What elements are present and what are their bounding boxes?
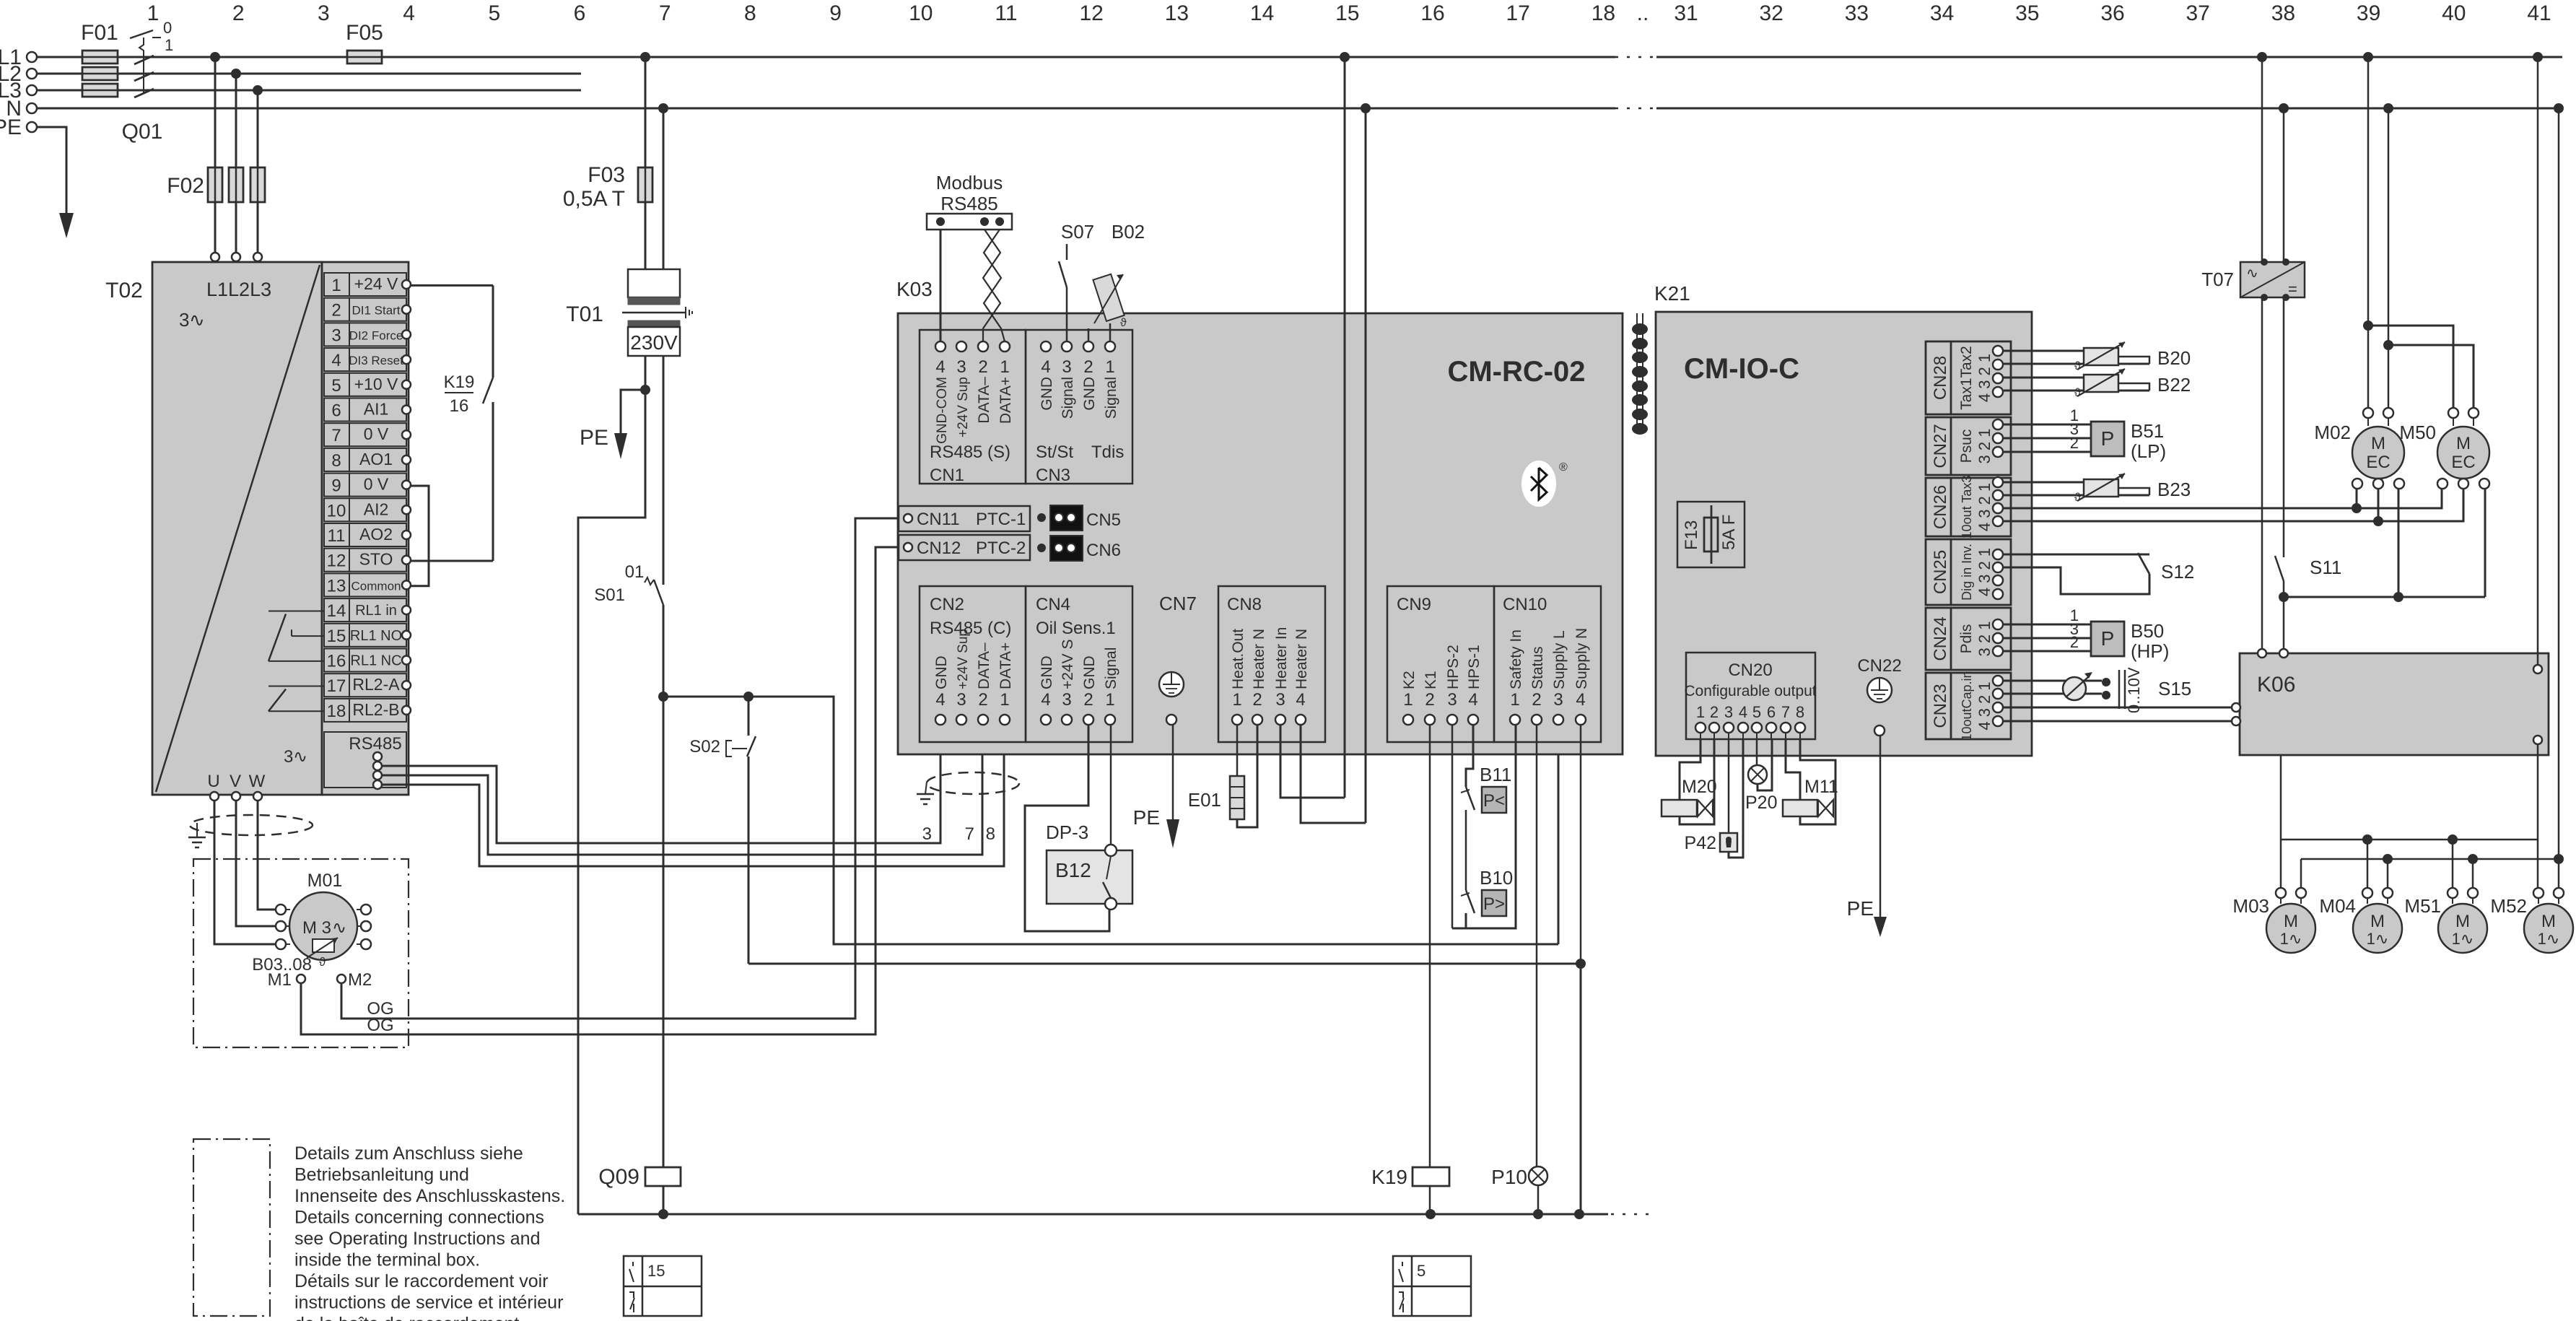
svg-text:(LP): (LP) [2131,440,2166,462]
svg-text:K03: K03 [896,278,933,300]
svg-text:+24 V: +24 V [354,274,398,293]
svg-text:1: 1 [1105,357,1114,377]
svg-text:DATA+: DATA+ [997,642,1014,689]
svg-text:Betriebsanleitung und: Betriebsanleitung und [294,1165,469,1185]
svg-text:DATA–: DATA– [976,642,992,689]
svg-text:F02: F02 [167,174,204,198]
svg-text:Heater N: Heater N [1251,629,1267,689]
svg-text:CN24: CN24 [1931,616,1950,660]
svg-text:F01: F01 [81,21,118,45]
svg-text:3 2 1: 3 2 1 [1975,429,1994,464]
svg-text:S01: S01 [594,585,625,605]
svg-text:S15: S15 [2158,678,2191,699]
svg-text:3: 3 [1062,690,1071,710]
svg-text:3: 3 [1447,690,1457,710]
svg-text:1∿: 1∿ [2538,930,2560,948]
svg-text:4 3 2 1: 4 3 2 1 [1975,548,1994,596]
svg-text:+24V Sup: +24V Sup [956,629,971,689]
svg-text:F03: F03 [588,163,625,187]
svg-text:8: 8 [986,824,995,844]
svg-text:DI1 Start: DI1 Start [352,304,400,318]
svg-text:P: P [2101,627,2115,650]
svg-text:CN11: CN11 [917,510,960,529]
svg-text:PE: PE [0,115,22,139]
svg-text:M20: M20 [1682,777,1717,797]
svg-text:38: 38 [2271,1,2295,25]
svg-text:2: 2 [1083,690,1093,710]
svg-text:Oil Sens.1: Oil Sens.1 [1036,619,1116,638]
svg-text:RL2-A: RL2-A [352,675,400,694]
svg-text:CN5: CN5 [1086,510,1121,530]
svg-text:2: 2 [232,1,245,25]
svg-text:K06: K06 [2257,673,2295,697]
svg-text:∿: ∿ [293,747,307,767]
svg-text:2: 2 [1532,690,1541,710]
svg-text:7: 7 [659,1,671,25]
svg-text:CN2: CN2 [930,595,964,614]
svg-text:5: 5 [1417,1262,1425,1280]
svg-text:4: 4 [935,690,945,710]
svg-text:1: 1 [331,276,341,295]
svg-text:CM-RC-02: CM-RC-02 [1447,356,1585,388]
svg-text:14: 14 [1250,1,1274,25]
svg-text:14: 14 [327,601,346,621]
svg-text:DI2 Force: DI2 Force [349,328,403,342]
svg-text:CN9: CN9 [1397,595,1431,614]
svg-text:Safety In: Safety In [1508,629,1524,689]
svg-text:5: 5 [488,1,500,25]
svg-text:M: M [2456,434,2471,453]
svg-text:2: 2 [2070,633,2079,651]
svg-text:5A F: 5A F [1719,515,1739,550]
svg-text:CN27: CN27 [1931,424,1950,468]
svg-text:M2: M2 [348,970,372,990]
svg-text:7: 7 [965,824,974,844]
svg-text:M: M [2370,912,2385,931]
svg-text:Signal: Signal [1103,377,1119,419]
svg-text:5: 5 [1752,703,1761,721]
svg-text:S11: S11 [2310,557,2341,578]
svg-text:2: 2 [1083,357,1093,377]
svg-text:3: 3 [331,326,341,345]
svg-text:GND-COM: GND-COM [935,377,950,444]
svg-text:Innenseite des Anschlusskasten: Innenseite des Anschlusskastens. [294,1186,565,1206]
svg-text:1: 1 [147,1,160,25]
svg-text:M: M [2455,912,2470,931]
svg-text:∿: ∿ [189,309,205,331]
svg-text:4: 4 [1041,357,1050,377]
svg-text:18: 18 [327,702,346,721]
svg-text:6: 6 [331,401,341,421]
svg-text:B10: B10 [1480,867,1513,889]
svg-text:4: 4 [403,1,415,25]
svg-text:39: 39 [2357,1,2380,25]
svg-text:T01: T01 [566,302,603,326]
svg-text:M51: M51 [2404,895,2441,917]
svg-text:13: 13 [327,576,346,596]
svg-text:1∿: 1∿ [2367,930,2389,948]
svg-text:CN10: CN10 [1503,595,1547,614]
svg-text:P<: P< [1483,791,1505,811]
svg-text:12: 12 [1080,1,1104,25]
svg-text:1: 1 [1000,357,1009,377]
svg-text:16: 16 [450,396,469,416]
svg-text:(HP): (HP) [2131,640,2169,662]
svg-text:Status: Status [1529,646,1546,689]
svg-text:1: 1 [1105,690,1114,710]
svg-text:4 3 2 1: 4 3 2 1 [1975,681,1994,730]
svg-text:4: 4 [1576,690,1585,710]
svg-text:M1: M1 [268,970,292,990]
svg-text:3: 3 [318,1,330,25]
svg-text:K19: K19 [1371,1166,1407,1188]
svg-text:GND: GND [933,655,950,689]
svg-text:RS485: RS485 [940,193,998,214]
svg-text:GND: GND [1081,655,1098,689]
svg-text:1∿: 1∿ [2452,930,2474,948]
svg-text:CN6: CN6 [1086,541,1121,560]
svg-text:®: ® [1559,461,1568,474]
svg-text:11: 11 [328,526,346,546]
svg-text:AO2: AO2 [359,525,393,544]
svg-text:M03: M03 [2232,895,2269,917]
svg-text:CN20: CN20 [1728,660,1772,680]
svg-text:Signal: Signal [1103,648,1119,689]
svg-text:11: 11 [995,1,1017,25]
svg-text:35: 35 [2015,1,2039,25]
svg-text:36: 36 [2100,1,2124,25]
svg-text:2: 2 [1710,703,1719,721]
svg-text:Supply L: Supply L [1551,630,1568,689]
svg-text:PTC-1: PTC-1 [976,510,1026,529]
svg-text:ϑ: ϑ [2074,492,2081,504]
svg-text:DP-3: DP-3 [1046,821,1088,843]
svg-text:B02: B02 [1112,221,1145,243]
svg-text:instructions de service et int: instructions de service et intérieur [294,1293,563,1313]
svg-text:4: 4 [935,357,945,377]
svg-text:16: 16 [327,652,346,671]
svg-text:CN1: CN1 [930,466,964,485]
svg-text:..: .. [1637,1,1649,25]
svg-text:12: 12 [327,551,346,571]
svg-text:Dig in Inv.: Dig in Inv. [1960,544,1974,601]
svg-text:GND: GND [1081,377,1098,411]
svg-text:+24V S: +24V S [1060,640,1076,689]
svg-text:CN26: CN26 [1931,485,1950,529]
svg-text:B51: B51 [2131,420,2164,442]
svg-text:PTC-2: PTC-2 [976,539,1026,558]
svg-text:32: 32 [1760,1,1783,25]
svg-text:Heater N: Heater N [1293,629,1310,689]
svg-text:3: 3 [922,824,932,844]
svg-text:RS485: RS485 [349,734,401,754]
svg-text:K2: K2 [1401,671,1418,689]
svg-text:T02: T02 [105,279,143,302]
svg-text:M: M [2284,912,2298,931]
svg-text:Psuc: Psuc [1958,430,1975,463]
svg-text:8: 8 [1796,703,1804,721]
svg-text:3: 3 [1724,703,1733,721]
svg-text:DATA–: DATA– [976,377,992,424]
svg-text:B11: B11 [1480,764,1511,785]
svg-text:L1L2L3: L1L2L3 [206,279,271,300]
svg-text:PE: PE [580,426,608,450]
svg-text:OG: OG [367,1016,393,1035]
svg-text:2: 2 [978,357,987,377]
svg-text:4: 4 [1296,690,1305,710]
svg-text:ϑ: ϑ [319,955,326,969]
svg-text:Détails sur le raccordement vo: Détails sur le raccordement voir [294,1271,549,1291]
svg-text:2: 2 [1252,690,1262,710]
svg-text:K1: K1 [1423,671,1439,689]
svg-text:3: 3 [956,690,966,710]
svg-text:15: 15 [1335,1,1359,25]
svg-text:PE: PE [1133,806,1160,829]
svg-text:1: 1 [1000,690,1009,710]
svg-text:31: 31 [1674,1,1698,25]
svg-text:AI2: AI2 [364,500,389,518]
svg-text:CN23: CN23 [1931,684,1950,728]
svg-text:0 V: 0 V [364,475,389,494]
svg-text:3: 3 [1062,357,1071,377]
svg-text:STO: STO [359,550,393,569]
svg-text:P>: P> [1483,894,1505,914]
svg-text:M52: M52 [2490,895,2527,917]
svg-text:S02: S02 [689,737,720,757]
svg-text:inside the terminal box.: inside the terminal box. [294,1250,480,1270]
svg-text:Pdis: Pdis [1958,624,1975,654]
svg-text:4 3 2 1: 4 3 2 1 [1975,483,1994,531]
svg-text:33: 33 [1845,1,1869,25]
svg-text:7: 7 [1781,703,1790,721]
svg-text:Supply N: Supply N [1573,628,1590,689]
svg-text:M04: M04 [2319,895,2356,917]
svg-text:3: 3 [1275,690,1285,710]
svg-text:S12: S12 [2161,561,2194,583]
svg-text:Tdis: Tdis [1091,442,1124,462]
svg-text:9: 9 [331,476,341,496]
svg-text:DATA+: DATA+ [997,377,1014,424]
svg-text:∿: ∿ [332,918,346,938]
svg-text:3: 3 [284,747,293,767]
svg-text:4: 4 [1468,690,1477,710]
svg-text:6: 6 [574,1,586,25]
svg-text:Modbus: Modbus [936,172,1003,193]
svg-text:Details zum Anschluss siehe: Details zum Anschluss siehe [294,1143,523,1164]
svg-text:F05: F05 [346,21,383,45]
svg-text:HPS-1: HPS-1 [1466,645,1483,689]
svg-text:CN28: CN28 [1931,356,1950,400]
svg-text:4: 4 [1041,690,1050,710]
svg-text:K21: K21 [1654,282,1690,305]
svg-text:P42: P42 [1685,833,1716,853]
svg-text:0,5A T: 0,5A T [563,187,625,211]
svg-text:1∿: 1∿ [2280,930,2302,948]
svg-text:P: P [2101,427,2115,450]
svg-text:B23: B23 [2157,479,2191,500]
svg-text:de la boîte de raccordement.: de la boîte de raccordement. [294,1314,524,1321]
svg-text:see Operating Instructions and: see Operating Instructions and [294,1229,540,1249]
svg-text:T07: T07 [2201,269,2234,290]
svg-text:PE: PE [1847,897,1874,920]
svg-text:4: 4 [331,351,341,370]
svg-text:10: 10 [327,501,346,520]
svg-text:AI1: AI1 [364,400,389,419]
svg-text:B20: B20 [2157,347,2191,369]
svg-text:RL1 in: RL1 in [355,603,397,619]
svg-text:M11: M11 [1804,777,1838,797]
svg-text:B50: B50 [2131,620,2164,642]
svg-text:10: 10 [909,1,933,25]
svg-text:15: 15 [327,627,346,646]
svg-text:E01: E01 [1188,789,1221,811]
svg-text:M: M [2371,434,2385,453]
svg-text:10outCap.in: 10outCap.in [1960,671,1974,741]
svg-text:M02: M02 [2314,422,2351,443]
svg-text:RS485 (S): RS485 (S) [930,442,1010,462]
svg-text:CN25: CN25 [1931,550,1950,594]
svg-text:2: 2 [331,301,341,321]
svg-text:ϑ: ϑ [1120,317,1127,329]
svg-text:230V: 230V [630,331,678,354]
svg-text:U: U [207,772,219,791]
svg-text:ϑ: ϑ [2074,360,2081,372]
svg-text:CM-IO-C: CM-IO-C [1684,353,1799,385]
svg-text:CN4: CN4 [1036,595,1070,614]
svg-text:RL1 NC: RL1 NC [350,653,401,669]
svg-text:RL2-B: RL2-B [352,700,399,719]
svg-text:0..10V: 0..10V [2125,667,2143,713]
svg-text:Details concerning connections: Details concerning connections [294,1208,544,1228]
svg-text:40: 40 [2442,1,2466,25]
svg-text:4: 4 [1739,703,1747,721]
svg-text:8: 8 [744,1,756,25]
svg-text:+10 V: +10 V [354,375,398,393]
svg-text:9: 9 [829,1,842,25]
svg-text:10out Tax3: 10out Tax3 [1960,476,1974,539]
svg-text:1: 1 [1696,703,1705,721]
svg-text:AO1: AO1 [359,450,393,468]
svg-text:CN8: CN8 [1227,595,1262,614]
svg-text:Common: Common [352,579,401,593]
svg-text:M50: M50 [2399,422,2436,443]
svg-text:8: 8 [331,451,341,471]
svg-text:16: 16 [1420,1,1444,25]
svg-text:15: 15 [647,1262,665,1280]
svg-text:17: 17 [327,676,346,696]
svg-text:M: M [2541,912,2556,931]
svg-text:6: 6 [1767,703,1776,721]
svg-text:Heat.Out: Heat.Out [1230,629,1246,689]
svg-text:3: 3 [179,309,189,331]
svg-text:41: 41 [2527,1,2551,25]
svg-text:1: 1 [165,36,173,54]
svg-text:01: 01 [625,562,645,582]
svg-text:7: 7 [331,426,341,445]
svg-text:0: 0 [163,19,172,37]
svg-text:CN22: CN22 [1857,656,1901,676]
svg-text:M01: M01 [307,871,343,891]
svg-text:CN3: CN3 [1036,466,1070,485]
svg-text:17: 17 [1506,1,1530,25]
svg-text:B22: B22 [2157,374,2191,396]
svg-text:13: 13 [1165,1,1189,25]
svg-text:=: = [2288,280,2297,298]
svg-text:DI3 Reset: DI3 Reset [349,354,403,367]
svg-text:1: 1 [1510,690,1519,710]
svg-text:GND: GND [1039,377,1055,411]
svg-text:CN7: CN7 [1159,593,1197,614]
svg-text:K19: K19 [444,372,475,392]
svg-text:2: 2 [1425,690,1434,710]
svg-text:1: 1 [1403,690,1413,710]
svg-text:W: W [249,772,266,791]
svg-text:3 2 1: 3 2 1 [1975,622,1994,657]
svg-text:Tax1Tax2: Tax1Tax2 [1958,346,1975,410]
svg-text:S07: S07 [1061,221,1094,243]
svg-text:EC: EC [2451,453,2475,472]
svg-text:EC: EC [2366,453,2390,472]
svg-text:F13: F13 [1682,520,1701,550]
svg-text:P20: P20 [1745,793,1777,813]
svg-text:ϑ: ϑ [2074,387,2081,399]
svg-text:1: 1 [1232,690,1241,710]
svg-text:2: 2 [2070,434,2079,452]
svg-text:34: 34 [1930,1,1954,25]
svg-text:4 3 2 1: 4 3 2 1 [1975,354,1994,402]
svg-text:3: 3 [956,357,966,377]
svg-text:Heater In: Heater In [1273,627,1290,689]
svg-text:B12: B12 [1055,859,1091,881]
svg-text:Signal: Signal [1060,377,1076,419]
svg-text:+24V Sup: +24V Sup [956,377,971,437]
svg-text:P10: P10 [1491,1166,1527,1188]
svg-text:Q01: Q01 [122,120,163,144]
svg-text:GND: GND [1039,655,1055,689]
svg-text:RL1 NO: RL1 NO [350,628,402,644]
svg-text:0 V: 0 V [364,424,389,443]
svg-text:2: 2 [978,690,987,710]
svg-text:Configurable output: Configurable output [1684,683,1816,699]
svg-text:∿: ∿ [2246,266,2258,282]
svg-text:Q09: Q09 [598,1165,639,1189]
svg-text:37: 37 [2186,1,2210,25]
svg-text:CN12: CN12 [917,539,961,558]
svg-text:St/St: St/St [1036,442,1073,462]
svg-text:5: 5 [331,376,341,396]
svg-text:HPS-2: HPS-2 [1445,645,1462,689]
svg-text:M 3: M 3 [302,918,331,938]
svg-text:3: 3 [1553,690,1563,710]
svg-text:18: 18 [1592,1,1615,25]
svg-text:V: V [230,772,241,791]
